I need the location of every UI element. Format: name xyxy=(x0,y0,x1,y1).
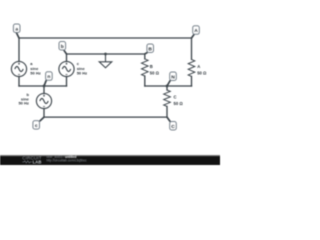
node n flag xyxy=(44,72,52,86)
svg-text:C: C xyxy=(171,124,175,130)
voltage source a (sine 50 Hz) xyxy=(11,61,26,76)
node N flag xyxy=(167,72,176,86)
svg-text:a: a xyxy=(15,27,18,32)
svg-text:A: A xyxy=(194,28,198,34)
wire second rail (node b to B) xyxy=(67,53,145,55)
ground xyxy=(99,54,112,68)
node c flag xyxy=(33,117,44,129)
wire source b bottom lead xyxy=(43,109,45,118)
wire source c bottom lead xyxy=(66,77,68,87)
voltage source c (sine 50 Hz) xyxy=(59,61,74,76)
voltage source b (sine 50 Hz) xyxy=(36,93,51,108)
svg-text:N: N xyxy=(171,74,175,80)
svg-text:c: c xyxy=(35,124,38,129)
svg-text:50 Hz: 50 Hz xyxy=(77,71,87,76)
svg-text:C: C xyxy=(174,94,177,99)
wire resistor B bottom lead xyxy=(144,76,146,86)
svg-text:A: A xyxy=(197,64,200,69)
svg-text:B: B xyxy=(148,46,152,52)
svg-text:50 Ω: 50 Ω xyxy=(174,101,184,106)
wire bottom mid horizontal (node N) xyxy=(145,85,192,87)
wire resistor C bottom lead xyxy=(166,106,168,117)
junction node N dot xyxy=(166,85,169,88)
svg-text:50 Ω: 50 Ω xyxy=(150,70,160,75)
CircuitLab logo resistor glyph xyxy=(22,161,32,163)
node A flag xyxy=(192,26,200,38)
resistor A 50Ω xyxy=(188,59,195,76)
wire source b top lead xyxy=(43,86,45,94)
svg-text:50 Hz: 50 Hz xyxy=(18,101,28,106)
node C flag xyxy=(167,117,176,130)
junction ground tap dot xyxy=(104,53,107,56)
svg-text:http://circuitlab.com/c3q5bcc: http://circuitlab.com/c3q5bcc xyxy=(46,158,87,162)
svg-text:50 Ω: 50 Ω xyxy=(197,70,207,75)
wire top rail (node a to A) xyxy=(19,37,192,39)
wire source c top lead xyxy=(66,54,68,62)
wire bottom rail (node c to C) xyxy=(44,116,167,118)
svg-text:B: B xyxy=(150,64,153,69)
CircuitLab footer bar xyxy=(0,155,220,165)
svg-text:b: b xyxy=(61,44,64,50)
resistor C 50Ω xyxy=(164,90,171,106)
svg-text:LAB: LAB xyxy=(33,159,42,164)
node a flag xyxy=(13,24,20,38)
wire top-left drop to source a xyxy=(18,38,20,62)
resistor B 50Ω xyxy=(142,59,149,76)
node b flag xyxy=(59,42,67,55)
wire resistor A top lead xyxy=(191,38,193,59)
wire resistor C top lead xyxy=(166,86,168,90)
junction node n dot xyxy=(43,85,46,88)
wire resistor A bottom lead xyxy=(191,76,193,86)
wire source a bottom lead xyxy=(18,77,20,87)
svg-text:50 Hz: 50 Hz xyxy=(30,71,40,76)
wire resistor B top lead xyxy=(144,54,146,59)
wire bottom-left horizontal (node n) xyxy=(19,85,67,87)
node B flag xyxy=(145,44,154,54)
svg-text:n: n xyxy=(47,75,50,80)
